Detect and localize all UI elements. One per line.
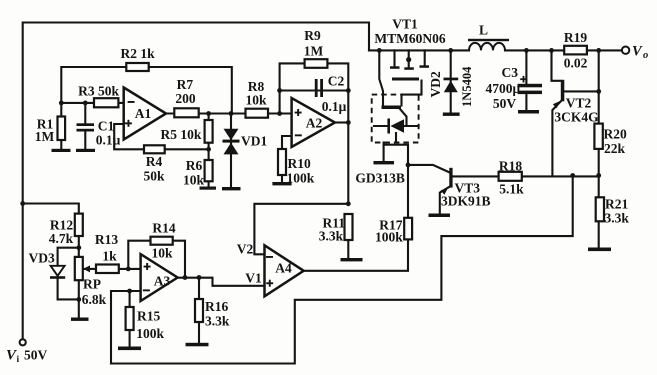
svg-text:200: 200: [175, 91, 196, 106]
svg-text:R13: R13: [95, 232, 118, 247]
svg-text:50V: 50V: [24, 348, 48, 363]
svg-text:V: V: [632, 44, 643, 60]
svg-text:VD2: VD2: [428, 71, 443, 97]
svg-text:A1: A1: [135, 106, 152, 121]
svg-text:VD1: VD1: [241, 134, 267, 149]
svg-text:3CK4G: 3CK4G: [554, 110, 599, 125]
svg-text:A3: A3: [154, 274, 171, 289]
svg-text:C2: C2: [328, 74, 345, 89]
svg-text:3DK91B: 3DK91B: [441, 194, 491, 209]
svg-text:10k: 10k: [183, 173, 205, 188]
svg-text:10k: 10k: [151, 246, 173, 261]
svg-text:R19: R19: [564, 30, 587, 45]
svg-text:V2: V2: [237, 241, 254, 256]
svg-text:R10: R10: [288, 156, 311, 171]
svg-text:10k: 10k: [245, 93, 267, 108]
svg-text:R14: R14: [152, 221, 175, 236]
svg-text:100k: 100k: [136, 326, 164, 341]
svg-text:100k: 100k: [287, 171, 315, 186]
svg-text:o: o: [643, 50, 648, 61]
svg-text:4700μ: 4700μ: [485, 81, 520, 96]
svg-text:A4: A4: [275, 261, 292, 276]
svg-text:1M: 1M: [304, 44, 324, 59]
svg-text:3.3k: 3.3k: [205, 314, 230, 329]
svg-text:5.1k: 5.1k: [499, 182, 524, 197]
svg-text:GD313B: GD313B: [355, 171, 405, 186]
svg-text:4.7k: 4.7k: [49, 231, 74, 246]
svg-text:VT2: VT2: [566, 96, 592, 111]
svg-text:R21: R21: [605, 197, 628, 212]
svg-text:0.1μ: 0.1μ: [322, 99, 347, 114]
svg-text:A2: A2: [306, 116, 323, 131]
svg-text:R6: R6: [186, 158, 203, 173]
svg-text:C1: C1: [98, 119, 115, 134]
svg-text:RP: RP: [83, 277, 101, 292]
svg-text:50V: 50V: [493, 96, 517, 111]
svg-text:100k: 100k: [375, 230, 403, 245]
svg-text:0.1μ: 0.1μ: [96, 133, 121, 148]
svg-text:i: i: [17, 355, 20, 365]
svg-text:R15: R15: [137, 309, 160, 324]
svg-text:R3 50k: R3 50k: [78, 84, 119, 99]
svg-text:MTM60N06: MTM60N06: [374, 31, 445, 46]
svg-text:R4: R4: [146, 154, 163, 169]
svg-text:1k: 1k: [102, 249, 117, 264]
svg-text:VT1: VT1: [392, 17, 418, 32]
svg-text:50k: 50k: [143, 169, 165, 184]
svg-text:VD3: VD3: [28, 251, 54, 266]
svg-text:R9: R9: [304, 28, 321, 43]
svg-text:3.3k: 3.3k: [605, 211, 630, 226]
svg-text:6.8k: 6.8k: [82, 292, 107, 307]
svg-text:R2 1k: R2 1k: [121, 46, 156, 61]
svg-text:R20: R20: [604, 127, 627, 142]
svg-text:V1: V1: [245, 271, 262, 286]
svg-text:1N5404: 1N5404: [460, 66, 474, 107]
svg-text:22k: 22k: [604, 141, 626, 156]
svg-text:1M: 1M: [35, 129, 55, 144]
svg-text:R16: R16: [205, 299, 228, 314]
svg-text:3.3k: 3.3k: [319, 229, 344, 244]
svg-text:R5 10k: R5 10k: [161, 127, 202, 142]
svg-text:0.02: 0.02: [564, 56, 588, 71]
svg-text:R18: R18: [499, 159, 522, 174]
svg-text:L: L: [479, 23, 488, 38]
svg-text:C3: C3: [502, 65, 519, 80]
svg-text:R7: R7: [177, 77, 194, 92]
